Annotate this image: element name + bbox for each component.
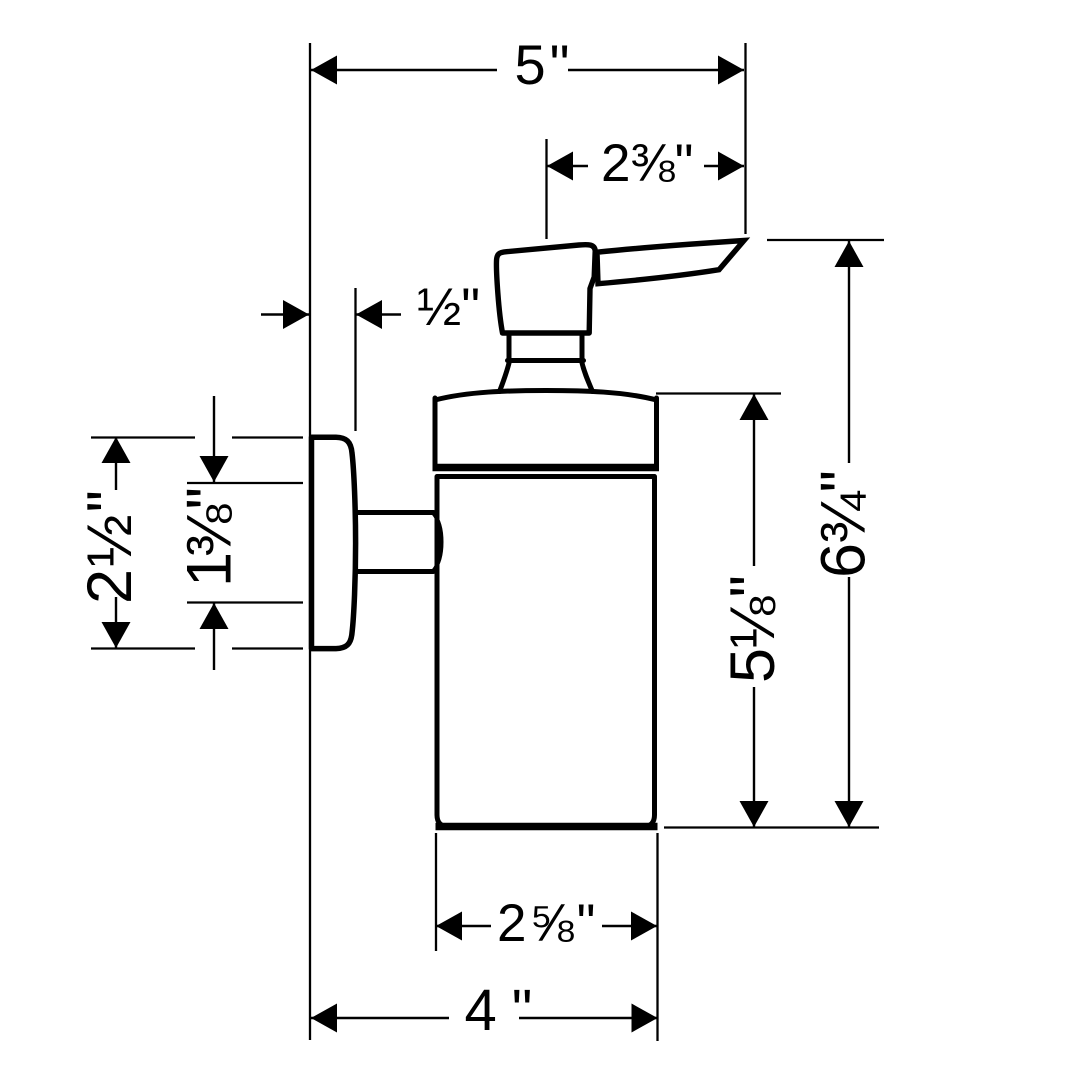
arrow 1/2in outside left bbox=[283, 300, 309, 329]
bottle body bottom thick bbox=[436, 823, 658, 831]
svg-text:4": 4" bbox=[465, 978, 548, 1043]
extension line plate bottom left bbox=[91, 647, 195, 649]
pump neck ring bbox=[508, 333, 584, 361]
extension line plate face bbox=[354, 288, 356, 431]
extension line plate top left bbox=[91, 436, 195, 438]
extension line bottle bottom right bbox=[664, 826, 879, 828]
extension line bottle left below bbox=[435, 833, 437, 951]
svg-text:2⅜": 2⅜" bbox=[601, 134, 694, 193]
arrow 4in right bbox=[632, 1004, 658, 1033]
dim line 6-3/4in bbox=[848, 241, 850, 463]
mounting arm bbox=[353, 513, 434, 572]
svg-text:5⅛": 5⅛" bbox=[718, 576, 788, 683]
svg-text:1⅜": 1⅜" bbox=[175, 489, 245, 587]
bottle collar dome bbox=[435, 391, 657, 401]
arrow 2-3/8in right bbox=[718, 152, 744, 181]
arrow 5in right bbox=[718, 56, 744, 85]
arrow 4in left bbox=[311, 1004, 337, 1033]
dim line 2-3/8in bbox=[547, 165, 588, 167]
svg-text:5": 5" bbox=[515, 33, 574, 96]
arrow 2-1/2in top bbox=[102, 437, 131, 463]
dim line 5in bbox=[311, 69, 497, 71]
arrow 1-3/8in bottom outside bbox=[200, 603, 229, 629]
extension line bottle right below bbox=[656, 833, 658, 1041]
bottle body bbox=[437, 477, 655, 827]
arrow 5in left bbox=[311, 56, 337, 85]
pump head bbox=[496, 245, 595, 333]
svg-text:2⅝": 2⅝" bbox=[497, 894, 599, 953]
dim line 1-3/8in bbox=[213, 396, 215, 482]
extension line lever top right bbox=[767, 239, 884, 241]
extension line arm bottom left bbox=[187, 601, 303, 603]
extension line collar top right bbox=[656, 392, 781, 394]
wall plate bbox=[312, 437, 356, 648]
arrow 2-5/8in left bbox=[436, 912, 462, 941]
arrow 1/2in outside right bbox=[356, 300, 382, 329]
extension line pump center bbox=[545, 139, 547, 239]
arrow 5-1/8in top bbox=[740, 394, 769, 420]
arrow 6-3/4in top bbox=[835, 241, 864, 267]
svg-text:½": ½" bbox=[417, 278, 480, 337]
pump neck flare bbox=[500, 361, 593, 392]
dim line 2-1/2in bbox=[115, 437, 117, 490]
arm end cap bulge bbox=[434, 514, 442, 571]
arrow 2-5/8in right bbox=[631, 912, 657, 941]
wall extension line bbox=[309, 43, 311, 1040]
arrow 6-3/4in bottom bbox=[835, 801, 864, 827]
dim line 2-5/8in bbox=[436, 925, 491, 927]
bottle collar sides bbox=[435, 398, 657, 465]
pump lever bbox=[597, 241, 744, 284]
dim line 5-1/8in bbox=[753, 394, 755, 566]
extension line arm top left bbox=[187, 482, 303, 484]
arrow 2-1/2in bottom bbox=[102, 622, 131, 648]
arrow 1-3/8in top outside bbox=[200, 456, 229, 482]
svg-text:6¾": 6¾" bbox=[809, 471, 879, 578]
bottle collar bottom bbox=[433, 464, 660, 472]
dim line 4in bbox=[311, 1017, 449, 1019]
extension line lever tip right bbox=[744, 43, 746, 234]
arrow 5-1/8in bottom bbox=[740, 801, 769, 827]
arrow 2-3/8in left bbox=[547, 152, 573, 181]
svg-text:2½": 2½" bbox=[75, 488, 145, 604]
dim line 1/2in bbox=[261, 313, 309, 315]
